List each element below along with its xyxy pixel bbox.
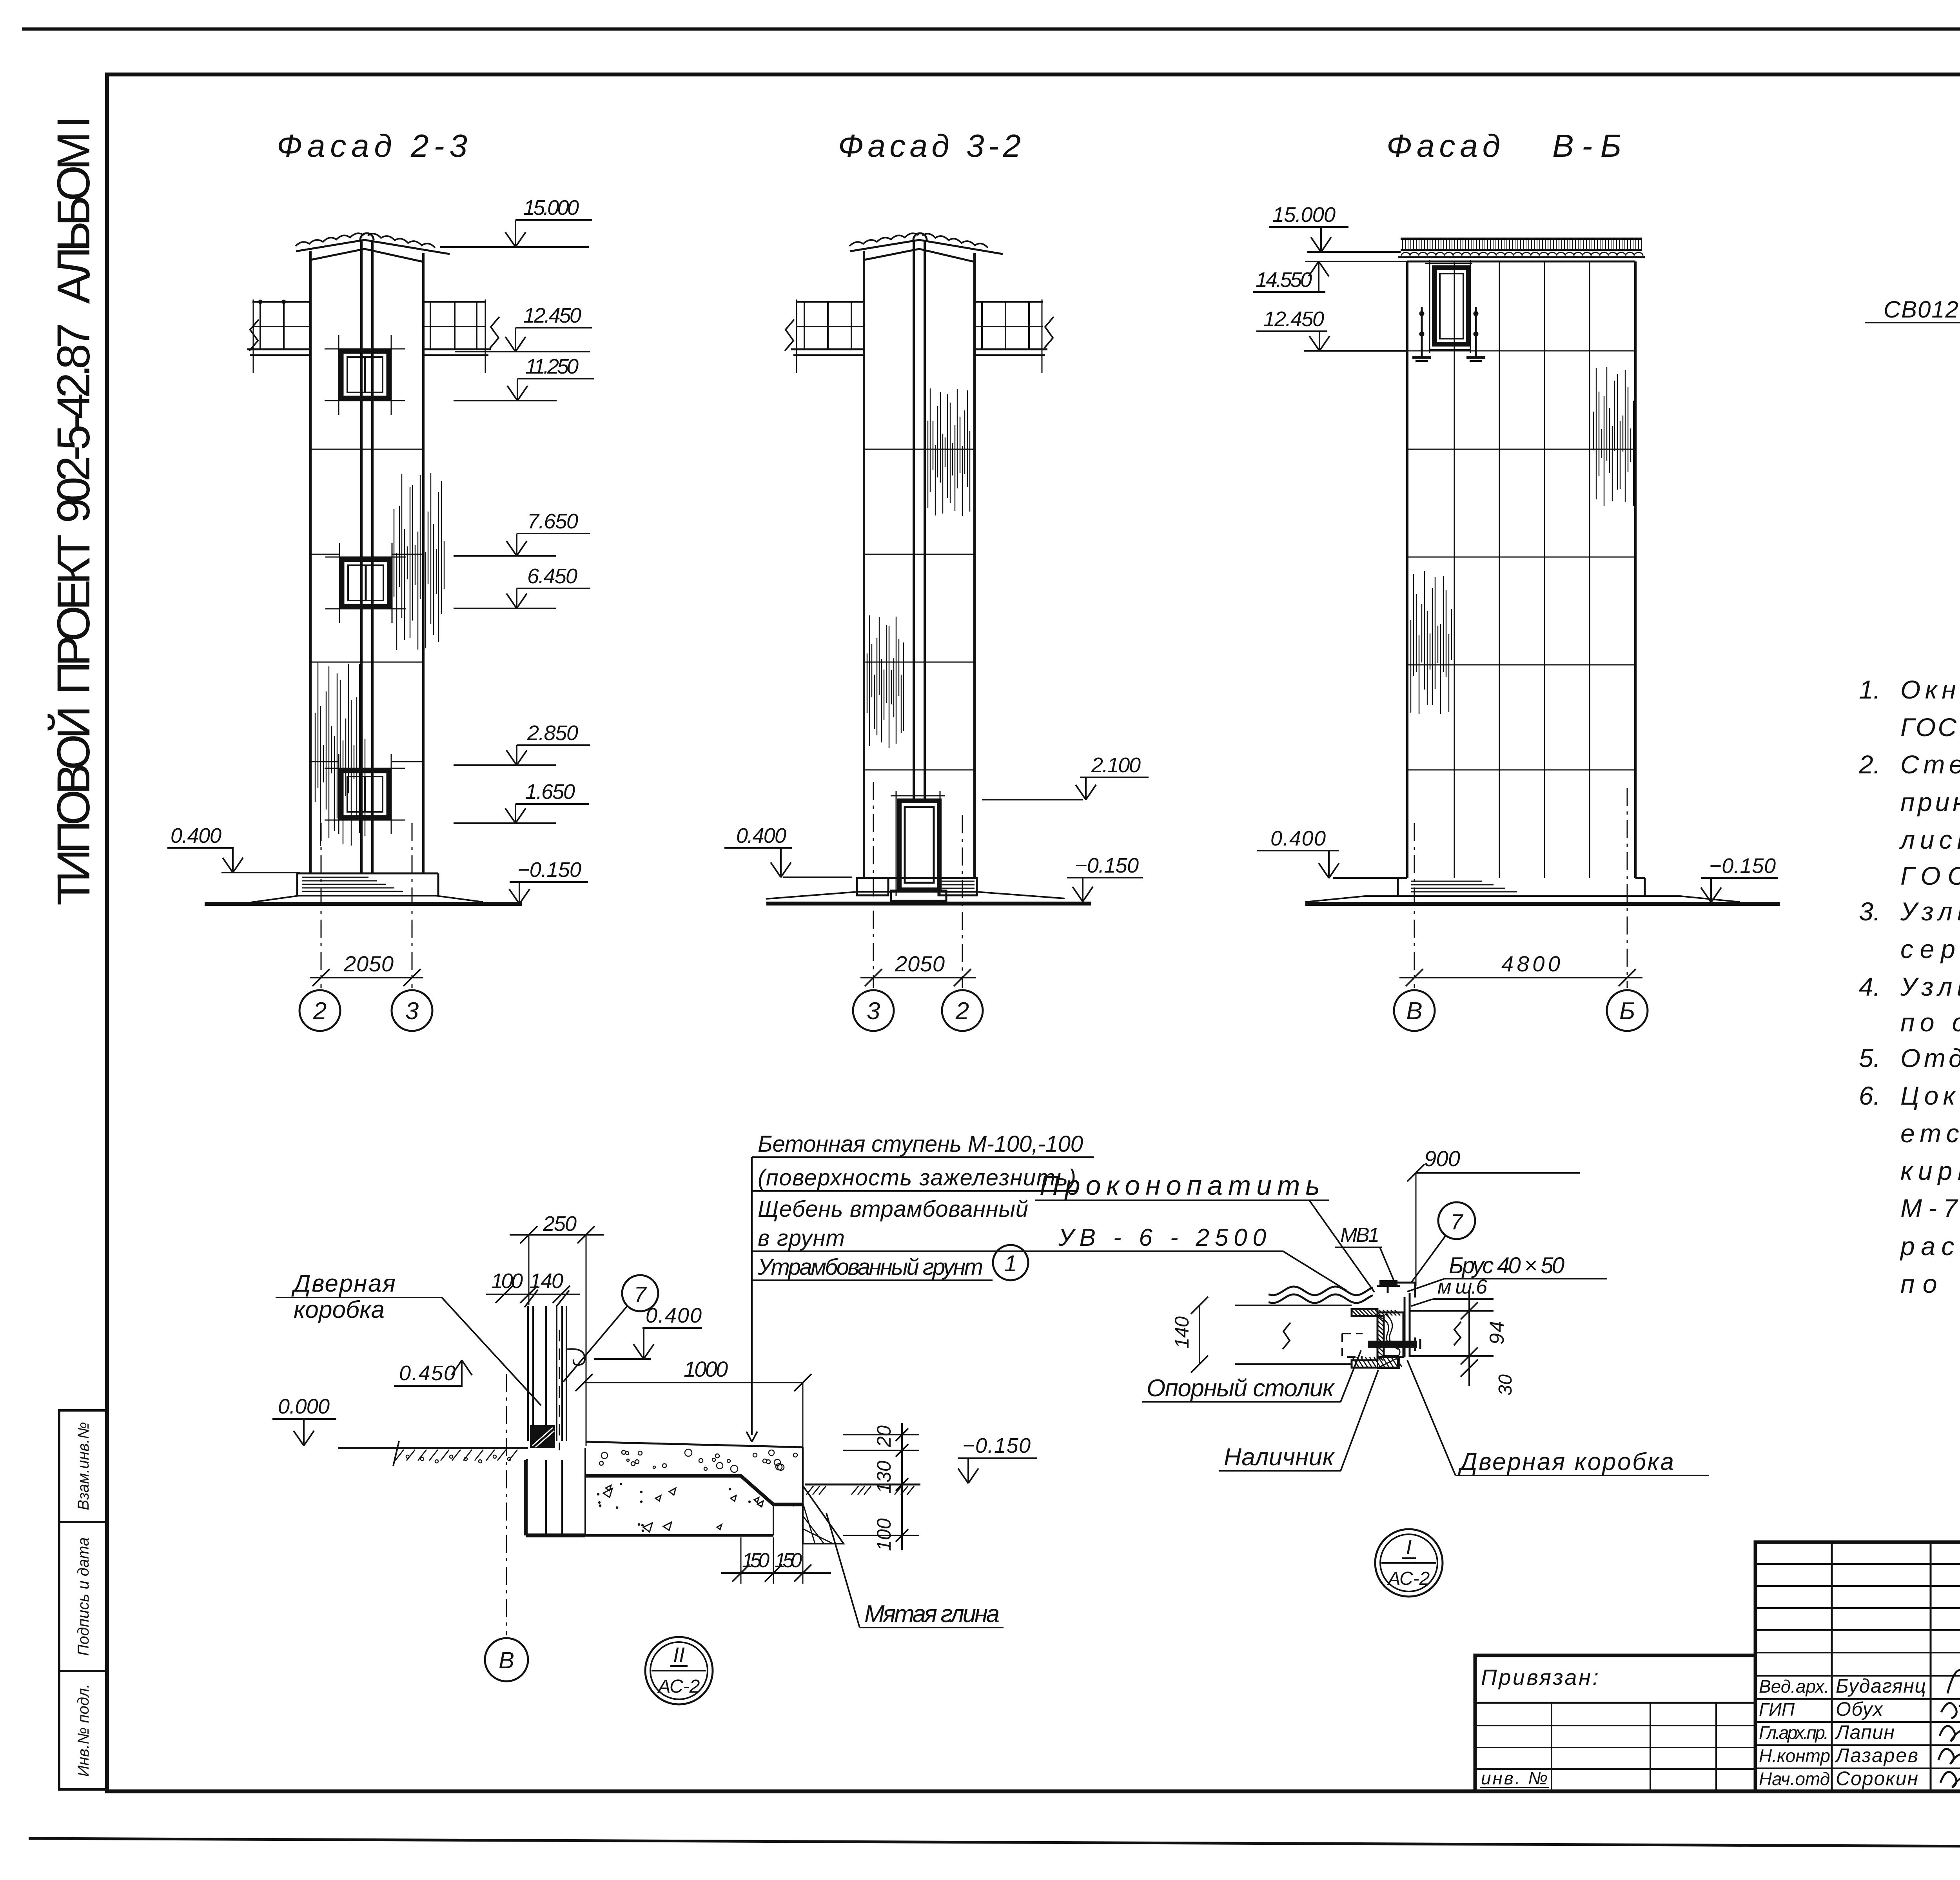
facade 2-3 balcony left xyxy=(252,301,310,303)
node II sheet hook on wall face xyxy=(567,1349,585,1365)
facade В-Б roof corrugation ticks xyxy=(1402,240,1403,249)
svg-text:250: 250 xyxy=(543,1212,577,1236)
svg-text:7: 7 xyxy=(634,1282,647,1307)
facade 3-2 roof finial xyxy=(913,233,927,240)
facade 3-2 center pipe xyxy=(913,240,915,802)
svg-text:кирпича пластического прессо: кирпича пластического прессования xyxy=(1900,1156,1960,1185)
node II dim 150 150 xyxy=(721,1572,831,1574)
svg-text:(поверхность зажелезнить): (поверхность зажелезнить) xyxy=(758,1165,1076,1190)
svg-text:140: 140 xyxy=(530,1269,563,1293)
svg-text:по сер. 2.460-1 в.1.: по сер. 2.460-1 в.1. xyxy=(1900,1008,1960,1037)
facade 2-3 axis circle 3 xyxy=(392,990,432,1031)
node II exterior slab xyxy=(586,1442,803,1447)
facade 2-3 center post xyxy=(360,240,363,873)
facade 2-3 window W2 xyxy=(325,557,406,558)
svg-text:коробка: коробка xyxy=(294,1296,385,1323)
node II section circle II/АС-2 xyxy=(645,1637,713,1704)
svg-text:Мятая глина: Мятая глина xyxy=(864,1601,1000,1628)
svg-text:140: 140 xyxy=(1171,1316,1193,1348)
svg-text:Инв.№ подл.: Инв.№ подл. xyxy=(75,1684,92,1777)
facade 3-2 wall edges xyxy=(863,251,865,878)
left margin stamp boxes xyxy=(59,1410,107,1522)
node II right side dims 20 130 100 xyxy=(901,1423,903,1550)
svg-text:Обух: Обух xyxy=(1836,1698,1884,1720)
facade В-Б weathering hatch mid left xyxy=(1410,620,1411,713)
svg-text:Утрамбованный грунт: Утрамбованный грунт xyxy=(757,1254,983,1280)
svg-text:7.650: 7.650 xyxy=(527,510,578,533)
svg-text:1000: 1000 xyxy=(684,1357,728,1381)
svg-text:СВ012-12: СВ012-12 xyxy=(1884,296,1960,323)
svg-text:100: 100 xyxy=(491,1269,523,1293)
svg-text:М-75 (ГОСТ 530-80) на цемен: М-75 (ГОСТ 530-80) на цементном xyxy=(1900,1194,1960,1223)
svg-text:ется из обыкновенного глиня: ется из обыкновенного глиняного xyxy=(1900,1119,1960,1148)
svg-text:150: 150 xyxy=(742,1549,769,1572)
svg-text:Бетонная ступень М-100,-100: Бетонная ступень М-100,-100 xyxy=(758,1131,1083,1157)
facade 3-2 axis circle 2 xyxy=(942,990,983,1031)
title block central signature table xyxy=(1755,1542,1960,1791)
svg-text:Гл.арх.пр.: Гл.арх.пр. xyxy=(1759,1722,1829,1743)
svg-text:Дверная: Дверная xyxy=(291,1270,396,1297)
facade 2-3 joint at window2 level xyxy=(310,554,339,555)
svg-text:В: В xyxy=(499,1647,514,1673)
facade 2-3 roof finial xyxy=(360,233,374,240)
facade 3-2 axis circle 3 xyxy=(853,990,894,1031)
svg-text:Вед.арх.: Вед.арх. xyxy=(1759,1676,1829,1697)
facade В-Б foundation mound xyxy=(1305,896,1740,902)
facade 2-3 dim 2050 xyxy=(310,977,423,978)
facade 2-3 weathering hatch left xyxy=(315,713,316,802)
node II door jamb wall section xyxy=(527,1306,529,1441)
facade 2-3 roof xyxy=(296,240,450,254)
svg-text:12.450: 12.450 xyxy=(1263,307,1324,331)
svg-text:100: 100 xyxy=(873,1518,895,1551)
svg-text:в грунт: в грунт xyxy=(758,1225,845,1251)
svg-text:Б: Б xyxy=(1619,998,1635,1025)
svg-text:4.: 4. xyxy=(1859,972,1880,1001)
facade 3-2 balcony left xyxy=(796,301,864,303)
svg-text:инв. №: инв. № xyxy=(1481,1768,1548,1788)
svg-text:0.400: 0.400 xyxy=(736,824,786,847)
svg-text:6.: 6. xyxy=(1859,1081,1880,1110)
node I lower plate hatched xyxy=(1377,1357,1399,1368)
svg-text:по фасаду.: по фасаду. xyxy=(1900,1269,1960,1298)
svg-text:Узлы крепления стен приняты: Узлы крепления стен приняты по xyxy=(1900,897,1960,926)
node I dims 94 30 xyxy=(1468,1294,1470,1386)
node I wall lines left xyxy=(1235,1305,1352,1306)
facade В-Б door opening xyxy=(1425,263,1472,264)
svg-text:Подпись и дата: Подпись и дата xyxy=(75,1537,92,1656)
svg-text:4800: 4800 xyxy=(1501,951,1560,976)
facade 2-3 balcony right xyxy=(423,301,486,303)
facade 2-3 axis lines xyxy=(321,823,322,988)
svg-text:II: II xyxy=(673,1643,685,1667)
svg-text:Узлы крепления покрытия при: Узлы крепления покрытия приняты xyxy=(1900,972,1960,1001)
svg-text:Нач.отд.: Нач.отд. xyxy=(1759,1769,1835,1789)
facade 3-2 horizontal joints xyxy=(864,449,975,450)
node I callout circle 7 xyxy=(1438,1202,1475,1239)
svg-text:−0.150: −0.150 xyxy=(962,1434,1031,1457)
svg-text:2.100: 2.100 xyxy=(1091,753,1141,777)
svg-text:94: 94 xyxy=(1486,1321,1508,1345)
svg-text:12.450: 12.450 xyxy=(523,304,581,327)
svg-text:7: 7 xyxy=(1450,1209,1463,1234)
facade 3-2 door frame xyxy=(899,801,939,890)
node I channel profile hatched xyxy=(1352,1309,1398,1368)
facade 3-2 weathering hatch upper right xyxy=(927,421,928,508)
svg-text:Будагянц: Будагянц xyxy=(1836,1675,1926,1697)
svg-text:Отделку фасадов см. л. АС-1: Отделку фасадов см. л. АС-1. xyxy=(1900,1043,1960,1072)
facade В-Б plinth xyxy=(1397,878,1399,896)
facade 3-2 dim 2050 xyxy=(860,977,976,978)
svg-text:3.: 3. xyxy=(1859,897,1880,926)
svg-text:11.250: 11.250 xyxy=(525,355,579,378)
sheet outer bottom edge line xyxy=(29,1838,1960,1849)
svg-text:2050: 2050 xyxy=(343,951,394,976)
svg-text:В-Б: В-Б xyxy=(1552,128,1621,164)
svg-text:Цоколь на высоту 0.450 м в: Цоколь на высоту 0.450 м выполня- xyxy=(1900,1081,1960,1110)
node II dim 100 140 xyxy=(486,1294,580,1295)
svg-text:20: 20 xyxy=(873,1425,895,1448)
node II interior floor 0.000 xyxy=(338,1447,528,1449)
svg-text:Наличник: Наличник xyxy=(1224,1444,1335,1471)
svg-text:Фасад 3-2: Фасад 3-2 xyxy=(838,128,1021,164)
svg-text:−0.150: −0.150 xyxy=(1709,854,1776,878)
svg-text:0.000: 0.000 xyxy=(278,1395,330,1418)
node II foundation block under wall xyxy=(524,1460,528,1535)
svg-text:растворе М-25. с расшивкой: растворе М-25. с расшивкой швов xyxy=(1900,1232,1960,1261)
svg-text:Сорокин: Сорокин xyxy=(1836,1767,1918,1789)
facade В-Б wall top xyxy=(1407,261,1635,263)
svg-text:2: 2 xyxy=(955,998,969,1025)
facade 2-3 ground line xyxy=(205,902,522,906)
facade 2-3 window W1 xyxy=(325,348,405,350)
svg-text:1.650: 1.650 xyxy=(525,780,575,804)
node II axis line B xyxy=(506,1374,507,1635)
title block signatures squiggles xyxy=(1947,1670,1960,1707)
svg-text:I: I xyxy=(1406,1535,1412,1559)
svg-text:6.450: 6.450 xyxy=(527,564,577,588)
svg-text:15.000: 15.000 xyxy=(523,196,579,220)
svg-text:2: 2 xyxy=(313,998,327,1025)
svg-text:Н.контр.: Н.контр. xyxy=(1759,1746,1835,1766)
svg-text:2.850: 2.850 xyxy=(527,721,578,745)
node I wood block with grain xyxy=(1377,1312,1403,1357)
svg-text:2.: 2. xyxy=(1858,750,1880,779)
node I door frame vertical bar xyxy=(1404,1297,1406,1357)
facade 3-2 weathering hatch lower left xyxy=(867,653,867,713)
svg-text:Брус 40 × 50: Брус 40 × 50 xyxy=(1449,1253,1564,1278)
svg-text:900: 900 xyxy=(1424,1146,1460,1171)
facade В-Б axis lines xyxy=(1414,823,1415,988)
node II clay wedge Мятая глина xyxy=(803,1486,844,1544)
svg-text:1: 1 xyxy=(1004,1251,1017,1276)
svg-text:130: 130 xyxy=(873,1461,895,1493)
svg-text:Привязан:: Привязан: xyxy=(1481,1665,1599,1689)
svg-text:м ш.6: м ш.6 xyxy=(1437,1276,1487,1298)
facade В-Б roof scallops xyxy=(1401,252,1643,256)
svg-text:В: В xyxy=(1406,998,1422,1025)
facade 2-3 wall edges xyxy=(309,251,312,873)
facade 3-2 door construction ticks xyxy=(896,791,897,896)
node I top bracket and bolt xyxy=(1388,1283,1415,1297)
node II dim 1000 xyxy=(584,1382,803,1383)
svg-text:АС-2: АС-2 xyxy=(1387,1568,1430,1589)
svg-text:МВ1: МВ1 xyxy=(1340,1224,1379,1247)
facade В-Б door brackets xyxy=(1421,307,1423,357)
svg-text:Стены и покрытие башни обс: Стены и покрытие башни обслуживания xyxy=(1900,750,1960,779)
svg-text:0.400: 0.400 xyxy=(646,1304,702,1327)
svg-text:14.550: 14.550 xyxy=(1256,268,1312,292)
facade 2-3 weathering hatch right xyxy=(394,509,394,597)
svg-text:ГОСТ 16233-77.: ГОСТ 16233-77. xyxy=(1900,861,1960,890)
svg-text:0.400: 0.400 xyxy=(1270,827,1326,850)
sheet outer top edge line xyxy=(22,27,1960,31)
node II axis circle В xyxy=(485,1638,528,1681)
facade В-Б weathering hatch upper right xyxy=(1593,412,1594,450)
facade В-Б wall edges xyxy=(1406,261,1408,878)
facade 3-2 roof xyxy=(850,240,1003,254)
facade 3-2 plinth xyxy=(857,877,975,879)
node I support table dashed xyxy=(1342,1334,1363,1357)
node I middle bolt xyxy=(1368,1341,1417,1348)
facade 2-3 horizontal joints xyxy=(310,449,423,450)
node I corrugated sheet xyxy=(1269,1287,1373,1295)
facade В-Б dim 4800 xyxy=(1399,977,1642,978)
facade В-Б roof band xyxy=(1401,238,1642,240)
facade В-Б horizontal joints xyxy=(1407,350,1635,352)
title block left section Привязан xyxy=(1475,1655,1755,1791)
svg-text:1.: 1. xyxy=(1859,675,1880,704)
facade В-Б ground line xyxy=(1305,902,1780,906)
svg-text:ГОСТ 12506-81. Спецификацию: ГОСТ 12506-81. Спецификацию см. л. АС-1. xyxy=(1900,713,1960,742)
svg-text:Лапин: Лапин xyxy=(1835,1721,1895,1743)
svg-text:2050: 2050 xyxy=(895,951,945,976)
node I section circle I/АС-2 xyxy=(1375,1529,1443,1597)
svg-text:Опорный столик: Опорный столик xyxy=(1147,1375,1335,1402)
node II callout circle 1 xyxy=(993,1245,1028,1280)
svg-text:Окна приняты деревянные: Окна приняты деревянные по xyxy=(1900,675,1960,704)
svg-text:АС-2: АС-2 xyxy=(657,1676,700,1697)
node II door sill block xyxy=(530,1425,555,1448)
node II slab gravel dots xyxy=(638,1451,642,1455)
node II leader vertical to slab xyxy=(751,1157,753,1435)
svg-text:Фасад 2-3: Фасад 2-3 xyxy=(277,128,467,164)
svg-text:−0.150: −0.150 xyxy=(517,858,581,882)
svg-text:Взам.инв.№: Взам.инв.№ xyxy=(75,1422,92,1510)
facade 2-3 foundation mound xyxy=(251,896,483,902)
svg-text:0.400: 0.400 xyxy=(171,824,221,847)
svg-text:5.: 5. xyxy=(1859,1043,1880,1072)
facade 3-2 balcony right xyxy=(975,301,1043,303)
svg-text:30: 30 xyxy=(1495,1374,1516,1395)
node II natural ground right xyxy=(805,1484,920,1486)
facade В-Б axis circle Б xyxy=(1607,990,1648,1031)
svg-text:ТИПОВОЙ ПРОЕКТ 902-5-42.87: ТИПОВОЙ ПРОЕКТ 902-5-42.87 АЛЬБОМ I xyxy=(47,116,100,906)
svg-text:3: 3 xyxy=(867,998,880,1025)
node II callout circle 7 xyxy=(622,1275,658,1311)
svg-text:150: 150 xyxy=(775,1549,802,1572)
facade В-Б vertical joints xyxy=(1454,261,1455,878)
node II slab aggregate xyxy=(717,1524,722,1530)
facade 2-3 joint at window3 level xyxy=(310,761,339,762)
svg-text:ГИП: ГИП xyxy=(1759,1699,1795,1720)
svg-text:−0.150: −0.150 xyxy=(1075,854,1139,877)
facade 3-2 door sill xyxy=(891,891,946,901)
svg-text:Щебень втрамбованный: Щебень втрамбованный xyxy=(758,1196,1028,1222)
node I wall lines right xyxy=(1409,1310,1494,1312)
svg-text:листов унифицированного про: листов унифицированного профиля по xyxy=(1899,825,1960,854)
svg-text:0.450: 0.450 xyxy=(399,1361,456,1385)
svg-text:УВ - 6 - 2500: УВ - 6 - 2500 xyxy=(1058,1224,1266,1251)
svg-text:3: 3 xyxy=(405,998,419,1025)
facade 2-3 plinth xyxy=(297,873,438,875)
svg-text:приняты из волнистых асбес: приняты из волнистых асбестоцементных xyxy=(1900,788,1960,817)
facade 2-3 axis circle 2 xyxy=(299,990,340,1031)
svg-text:Проконопатить: Проконопатить xyxy=(1040,1170,1320,1201)
facade 2-3 window W3 xyxy=(325,768,405,769)
svg-text:сер. 2.430-2 в.1.: сер. 2.430-2 в.1. xyxy=(1900,935,1960,964)
facade 3-2 foundation mound xyxy=(766,892,1065,899)
svg-text:Лазарев: Лазарев xyxy=(1835,1744,1918,1766)
facade 3-2 axis lines xyxy=(873,782,874,988)
svg-text:15.000: 15.000 xyxy=(1272,203,1336,227)
svg-text:Дверная коробка: Дверная коробка xyxy=(1458,1448,1674,1475)
node II dim 250 xyxy=(510,1234,604,1236)
svg-text:Фасад: Фасад xyxy=(1387,128,1500,164)
facade В-Б axis circle В xyxy=(1394,990,1435,1031)
node II wall top break xyxy=(524,1290,538,1307)
facade 3-2 ground line xyxy=(766,902,1091,906)
